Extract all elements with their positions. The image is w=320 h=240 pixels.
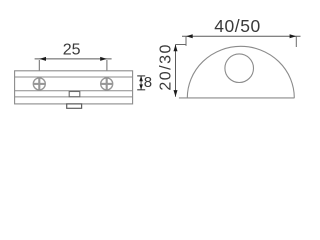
svg-text:25: 25 xyxy=(63,41,81,58)
dome arc xyxy=(187,46,294,98)
wire: bar inner line 4 xyxy=(15,96,133,98)
extension tick top xyxy=(176,44,187,46)
svg-text:20/30: 20/30 xyxy=(157,43,174,91)
arrow right xyxy=(290,34,297,38)
tab below bar xyxy=(67,104,82,108)
extension line left xyxy=(185,36,187,46)
dimension line 8 xyxy=(140,76,142,90)
svg-text:8: 8 xyxy=(144,74,152,91)
svg-text:40/50: 40/50 xyxy=(214,16,261,36)
dimension line 40/50 xyxy=(182,35,301,37)
wire: bar inner line 3 xyxy=(15,90,133,92)
dimension 20/30 xyxy=(157,43,186,97)
tick bottom xyxy=(137,89,145,91)
arrow up xyxy=(139,76,143,81)
left view: clamp bar outline xyxy=(15,71,133,104)
arrow right xyxy=(100,57,107,61)
right view: dome base line xyxy=(179,97,295,99)
notch rectangle xyxy=(69,92,80,97)
extension line right xyxy=(106,60,108,70)
arrow up xyxy=(174,45,178,52)
dimension line 25 xyxy=(35,58,112,60)
extension line left xyxy=(38,60,40,70)
extension line right xyxy=(295,36,297,47)
dimension line 20/30 xyxy=(175,45,177,97)
tick top xyxy=(137,75,145,77)
arrow left xyxy=(186,34,193,38)
arrow down xyxy=(174,90,178,97)
dimension 25 xyxy=(35,41,112,70)
arrow left xyxy=(39,57,46,61)
arrow down xyxy=(139,84,143,89)
screw right xyxy=(101,78,113,90)
dimension 8 xyxy=(137,74,152,91)
screw left xyxy=(33,78,45,90)
dome hole xyxy=(225,54,254,83)
dimension 40/50 xyxy=(182,16,301,47)
wire: bar inner line 2 xyxy=(15,76,133,78)
